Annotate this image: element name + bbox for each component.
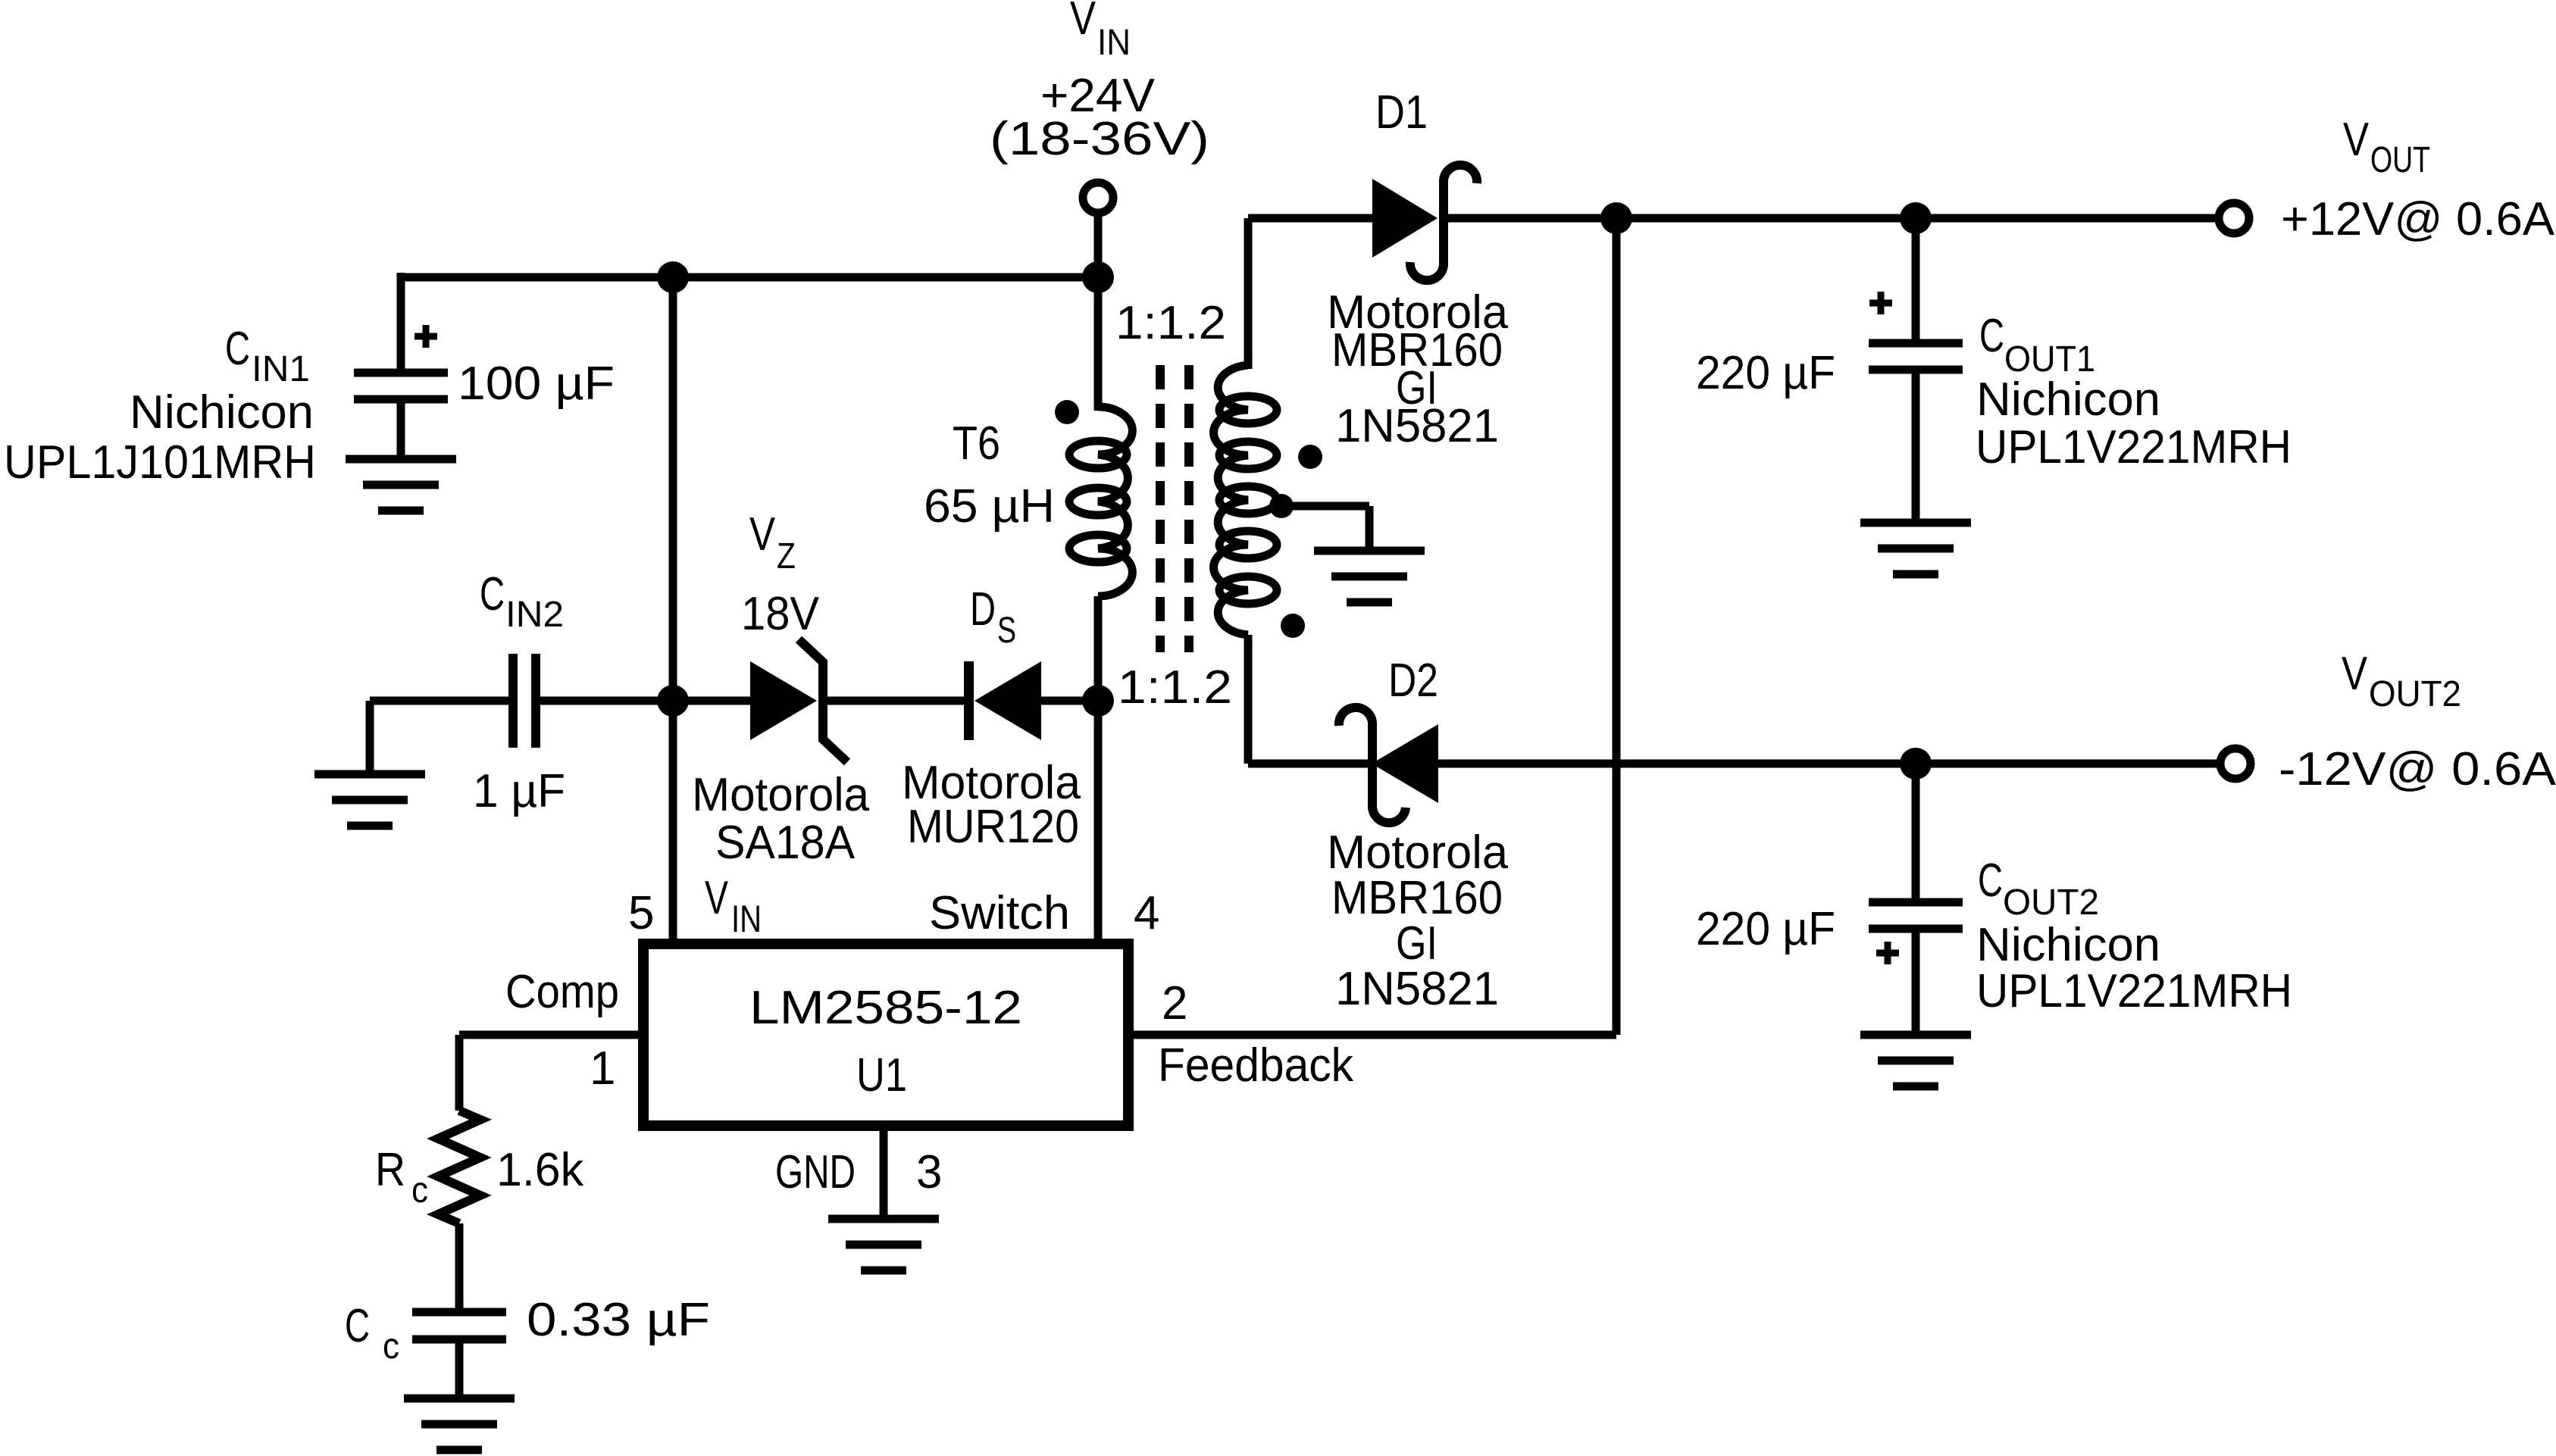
svg-text:220 µF: 220 µF (1696, 903, 1835, 955)
svg-text:1:1.2: 1:1.2 (1118, 661, 1232, 714)
svg-text:220 µF: 220 µF (1696, 347, 1835, 399)
svg-text:Switch: Switch (929, 887, 1070, 939)
svg-text:Z: Z (777, 536, 796, 576)
svg-text:V: V (1070, 0, 1097, 45)
svg-text:R: R (375, 1144, 405, 1196)
svg-text:100 µF: 100 µF (458, 358, 615, 410)
svg-text:T6: T6 (953, 417, 1000, 470)
svg-text:LM2585-12: LM2585-12 (749, 982, 1022, 1034)
svg-text:D1: D1 (1375, 86, 1428, 139)
svg-text:0.33 µF: 0.33 µF (527, 1294, 710, 1346)
svg-text:IN1: IN1 (252, 349, 310, 389)
svg-text:V: V (749, 508, 776, 561)
svg-text:GI: GI (1396, 917, 1438, 970)
svg-text:c: c (411, 1170, 428, 1211)
svg-text:Nichicon: Nichicon (1976, 373, 2160, 426)
svg-text:IN: IN (731, 898, 762, 940)
svg-text:OUT2: OUT2 (2369, 674, 2461, 714)
svg-text:1N5821: 1N5821 (1335, 963, 1499, 1015)
svg-text:MBR160: MBR160 (1331, 872, 1503, 924)
svg-text:C: C (1978, 855, 2003, 907)
svg-text:1N5821: 1N5821 (1335, 400, 1499, 452)
svg-text:18V: 18V (741, 588, 820, 640)
svg-text:GND: GND (775, 1146, 856, 1198)
svg-text:4: 4 (1134, 887, 1159, 939)
svg-text:c: c (383, 1326, 399, 1367)
svg-text:D: D (970, 583, 996, 636)
svg-text:1 µF: 1 µF (473, 765, 565, 817)
svg-text:UPL1V221MRH: UPL1V221MRH (1976, 421, 2292, 473)
svg-text:-12V@ 0.6A: -12V@ 0.6A (2279, 743, 2556, 795)
svg-text:+12V@ 0.6A: +12V@ 0.6A (2281, 193, 2555, 245)
svg-text:Motorola: Motorola (1327, 826, 1509, 879)
svg-text:UPL1V221MRH: UPL1V221MRH (1976, 965, 2292, 1017)
svg-text:1:1.2: 1:1.2 (1115, 297, 1226, 349)
svg-text:C: C (1979, 310, 2004, 362)
svg-text:Motorola: Motorola (692, 769, 870, 821)
svg-text:IN: IN (1097, 23, 1131, 63)
svg-text:V: V (2342, 648, 2368, 700)
svg-text:65 µH: 65 µH (924, 480, 1055, 533)
svg-text:Feedback: Feedback (1158, 1039, 1354, 1092)
svg-text:C: C (225, 323, 250, 375)
svg-text:5: 5 (628, 887, 654, 939)
svg-text:IN2: IN2 (505, 595, 564, 635)
svg-text:Nichicon: Nichicon (1976, 919, 2160, 971)
svg-text:(18-36V): (18-36V) (990, 113, 1209, 165)
svg-text:S: S (997, 611, 1016, 651)
svg-text:D2: D2 (1388, 655, 1438, 707)
svg-text:U1: U1 (856, 1049, 907, 1101)
svg-text:SA18A: SA18A (715, 817, 856, 869)
svg-text:UPL1J101MRH: UPL1J101MRH (4, 436, 316, 489)
svg-text:MUR120: MUR120 (907, 801, 1079, 853)
svg-text:C: C (345, 1300, 370, 1352)
svg-text:Nichicon: Nichicon (130, 386, 314, 439)
svg-text:OUT2: OUT2 (2003, 883, 2099, 923)
svg-text:OUT: OUT (2370, 140, 2430, 180)
svg-text:V: V (705, 872, 728, 924)
svg-text:2: 2 (1162, 977, 1187, 1030)
svg-text:1.6k: 1.6k (496, 1144, 584, 1196)
svg-text:V: V (2343, 114, 2370, 166)
svg-text:3: 3 (916, 1146, 942, 1198)
svg-text:1: 1 (590, 1042, 615, 1095)
svg-text:C: C (480, 568, 505, 620)
svg-text:Comp: Comp (505, 966, 619, 1018)
